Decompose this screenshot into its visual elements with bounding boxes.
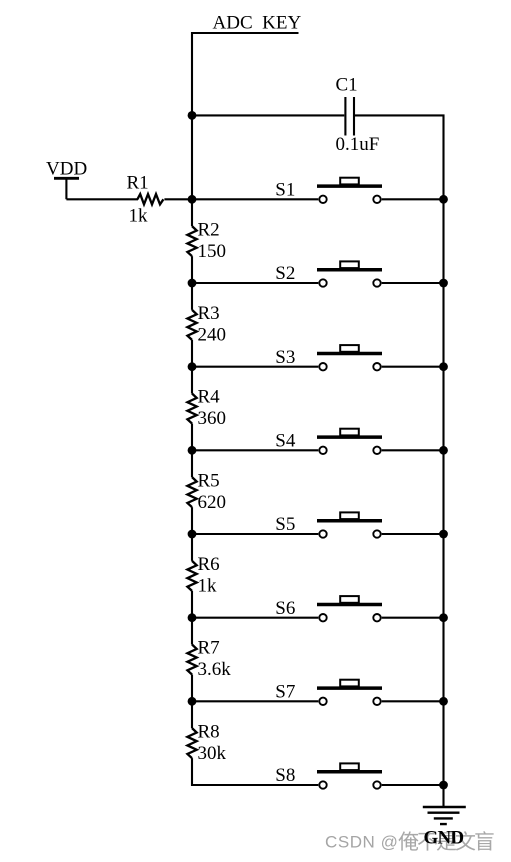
svg-text:240: 240 — [198, 324, 227, 345]
svg-text:0.1uF: 0.1uF — [336, 134, 380, 155]
svg-text:30k: 30k — [198, 743, 227, 764]
svg-text:R3: R3 — [198, 303, 220, 324]
svg-text:VDD: VDD — [46, 158, 87, 179]
svg-text:ADC KEY: ADC KEY — [213, 13, 302, 34]
svg-text:GND: GND — [424, 828, 464, 849]
svg-text:S1: S1 — [275, 179, 295, 200]
svg-text:1k: 1k — [198, 575, 218, 596]
svg-text:150: 150 — [198, 241, 227, 262]
svg-text:S5: S5 — [275, 514, 295, 535]
svg-text:R2: R2 — [198, 219, 220, 240]
svg-text:360: 360 — [198, 408, 227, 429]
svg-text:S8: S8 — [275, 765, 295, 786]
svg-text:R7: R7 — [198, 638, 220, 659]
svg-text:S4: S4 — [275, 430, 296, 451]
svg-text:C1: C1 — [336, 75, 358, 96]
svg-text:S3: S3 — [275, 347, 295, 368]
svg-text:R5: R5 — [198, 470, 220, 491]
svg-text:CSDN @: CSDN @ — [325, 832, 398, 851]
svg-text:S6: S6 — [275, 598, 295, 619]
svg-text:R8: R8 — [198, 721, 220, 742]
svg-text:1k: 1k — [129, 206, 149, 227]
svg-text:S7: S7 — [275, 681, 295, 702]
svg-text:S2: S2 — [275, 263, 295, 284]
svg-text:R1: R1 — [127, 172, 149, 193]
svg-text:620: 620 — [198, 492, 227, 513]
svg-text:R4: R4 — [198, 387, 221, 408]
svg-text:R6: R6 — [198, 554, 220, 575]
svg-text:3.6k: 3.6k — [198, 659, 232, 680]
